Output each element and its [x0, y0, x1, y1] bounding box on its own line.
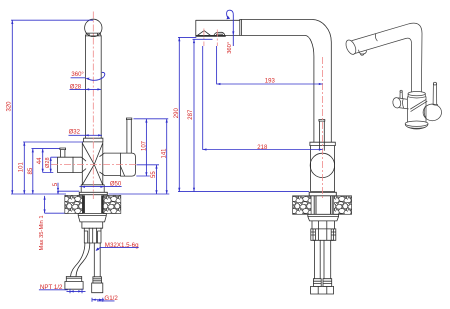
horizontal arm + outer bend — [240, 20, 331, 143]
thread tabs middle — [311, 229, 336, 240]
tube bottom flange — [82, 138, 103, 142]
arrows 218 — [203, 148, 207, 150]
ext deck level — [178, 191, 309, 193]
mounting nut — [78, 213, 106, 222]
outlet 1 center — [203, 29, 205, 47]
arrows 85 — [32, 149, 34, 153]
dim d28 valve line — [51, 157, 58, 172]
svg-text:Ø28: Ø28 — [70, 85, 82, 91]
svg-text:360°: 360° — [71, 72, 84, 78]
arrows d28 valve — [50, 157, 52, 161]
dim 55 line — [137, 165, 160, 194]
mounting nut middle — [308, 214, 339, 221]
ext line top of ball — [11, 19, 93, 21]
dim 101 line — [23, 142, 25, 194]
countertop section left — [65, 195, 121, 213]
hose collars middle — [313, 279, 331, 287]
shank with hose outlets — [84, 228, 101, 243]
svg-text:218: 218 — [257, 145, 268, 151]
dim d50 line — [80, 186, 122, 188]
leader G — [97, 300, 115, 302]
svg-text:Ø32: Ø32 — [69, 130, 81, 136]
left port — [73, 157, 86, 172]
svg-text:44: 44 — [37, 157, 43, 164]
diagonal port edges — [411, 100, 428, 112]
arrows 141 — [166, 119, 168, 123]
leader 360 — [71, 77, 86, 79]
shank walls middle — [314, 196, 332, 215]
max-min clamp dim — [45, 196, 65, 213]
arrows 101 — [23, 142, 25, 146]
left filter valve — [57, 157, 73, 172]
svg-text:85: 85 — [28, 167, 34, 174]
svg-text:Ø28: Ø28 — [45, 157, 51, 168]
joint divider — [240, 20, 242, 36]
svg-text:Max 35-Min 1: Max 35-Min 1 — [39, 215, 45, 250]
dim 107 line — [136, 119, 150, 176]
left valve pin — [60, 148, 66, 157]
blue arrows middle view — [178, 16, 322, 192]
ext lever top — [134, 118, 169, 120]
swivel arc 360 — [87, 72, 105, 80]
dim 287 line — [193, 39, 195, 191]
horizontal port center line — [51, 164, 136, 166]
dim 5 line — [58, 183, 79, 194]
column collar — [408, 92, 425, 96]
tip joint line — [375, 34, 377, 41]
hoses middle — [314, 240, 330, 278]
left pin cap — [400, 90, 402, 92]
svg-text:107: 107 — [142, 140, 148, 151]
cylinder intersection X — [83, 144, 103, 185]
leader NPT — [39, 289, 68, 291]
base plate — [79, 192, 107, 194]
svg-text:320: 320 — [7, 101, 13, 112]
dim d28 tube line — [70, 88, 101, 90]
side body — [311, 146, 335, 192]
valve body — [82, 142, 103, 185]
ext line 85/44 top — [32, 148, 60, 150]
threaded shank walls through deck — [82, 195, 85, 213]
NPT width ticks — [70, 289, 82, 293]
dim 44 line — [43, 149, 54, 173]
arrows d28 tube — [85, 88, 89, 90]
handle face bevel — [424, 107, 426, 120]
blue label leader lines left view — [39, 78, 139, 302]
shank with outlets middle — [313, 221, 334, 240]
handle rod cap — [433, 82, 436, 85]
hose end nuts middle — [311, 286, 334, 294]
baseline right — [109, 193, 170, 195]
countertop section middle — [293, 196, 352, 215]
base skirt — [81, 185, 104, 193]
G1/2 thread collar — [93, 277, 102, 283]
arrows NPT — [70, 290, 74, 292]
mixer handle body — [121, 153, 136, 176]
svg-text:193: 193 — [265, 79, 276, 85]
G width dim — [92, 299, 104, 301]
arrow swivel loop — [227, 16, 231, 20]
dim 141 line — [166, 119, 168, 194]
M32 leader arrow — [96, 248, 100, 251]
aerator collar under ball — [85, 33, 101, 36]
spout tip piece — [196, 20, 240, 35]
arrows 5 — [57, 188, 59, 191]
svg-text:360°: 360° — [227, 42, 233, 54]
handle chamfer line — [121, 167, 125, 177]
arm bottom edge and inner bend — [354, 38, 411, 92]
aerator lip — [359, 50, 367, 55]
flexible hose to NPT — [71, 243, 90, 277]
arrows 44 — [42, 149, 44, 153]
shank cylinder — [82, 222, 103, 228]
NPT width dim — [67, 290, 86, 292]
dim d32 line — [69, 134, 103, 136]
G1/2 pipe — [94, 243, 100, 277]
arrow swivel — [86, 78, 90, 80]
ext spout bottom — [178, 36, 196, 38]
ext outlet bottom — [193, 38, 213, 40]
svg-text:287: 287 — [188, 109, 194, 120]
arrows 193 — [217, 83, 221, 85]
thick outlet base line — [196, 35, 225, 37]
left lever body — [398, 98, 408, 109]
dim 193 line — [217, 46, 323, 84]
shank cylinder middle — [312, 221, 334, 229]
svg-text:290: 290 — [174, 108, 180, 119]
spout tip cap — [344, 39, 358, 56]
arm underside + inner bend — [196, 35, 314, 142]
svg-text:55: 55 — [151, 171, 157, 178]
handle rod — [432, 84, 438, 105]
right port — [100, 153, 121, 175]
middle base plate — [309, 192, 336, 196]
outlet 2 center — [216, 30, 218, 47]
side lever rod — [319, 120, 325, 151]
base disc — [405, 121, 428, 126]
dim 85 line — [32, 149, 34, 194]
arrows clamp — [44, 196, 46, 200]
arrows d50 — [81, 186, 85, 188]
dim 320 line — [11, 20, 13, 194]
dim 290 line — [178, 37, 180, 191]
NPT hose end fitting — [65, 277, 83, 290]
handle face — [423, 104, 441, 121]
valve sphere — [310, 153, 334, 177]
body sides — [407, 97, 426, 123]
aerator bump 1 — [197, 31, 212, 36]
baseline left — [11, 193, 66, 195]
blue arrows left view — [11, 20, 168, 301]
leader M32 — [96, 248, 139, 251]
vertical center line — [92, 12, 94, 200]
column center line — [322, 57, 324, 200]
arrows 107 — [145, 119, 147, 123]
arrows G — [92, 299, 96, 301]
arm top edge and bend — [352, 23, 422, 92]
arrows d32 — [85, 134, 89, 136]
spout ball top — [85, 19, 102, 36]
G1/2 nut — [92, 283, 103, 293]
svg-text:141: 141 — [161, 148, 167, 159]
arrows 320 — [11, 20, 13, 24]
arrows 287 — [193, 39, 195, 43]
handle lever rod — [126, 118, 131, 153]
left pin — [400, 92, 402, 99]
G width ticks — [92, 298, 103, 302]
dim 218 line — [203, 46, 323, 150]
body collar — [310, 142, 335, 145]
left lever cap — [392, 97, 402, 109]
arrows 55 — [155, 165, 157, 169]
arrows 290 — [178, 37, 180, 41]
svg-text:101: 101 — [18, 162, 24, 173]
ext line 101 — [23, 141, 83, 143]
riser tube — [85, 36, 101, 138]
aerator bump 2 — [214, 32, 225, 36]
svg-text:Ø50: Ø50 — [110, 182, 122, 188]
swivel loop 360 — [227, 10, 234, 46]
